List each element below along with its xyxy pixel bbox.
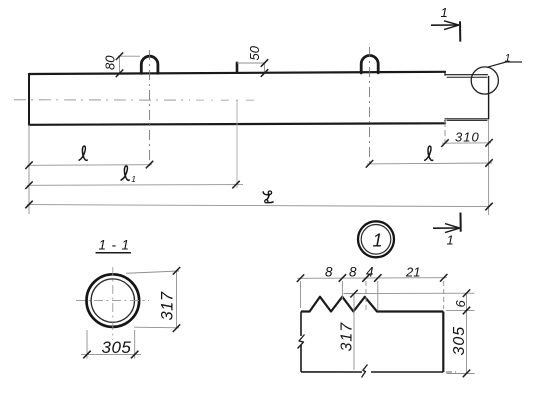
svg-text:50: 50 xyxy=(247,45,262,60)
svg-text:8: 8 xyxy=(325,265,333,280)
svg-text:317: 317 xyxy=(339,322,356,352)
svg-text:1-1: 1-1 xyxy=(99,238,135,253)
svg-text:1: 1 xyxy=(441,5,448,20)
svg-text:305: 305 xyxy=(451,326,468,356)
svg-text:1: 1 xyxy=(373,231,383,251)
svg-text:4: 4 xyxy=(366,265,374,280)
svg-text:21: 21 xyxy=(405,265,420,280)
svg-text:1: 1 xyxy=(447,233,454,248)
svg-text:305: 305 xyxy=(102,338,132,357)
svg-text:8: 8 xyxy=(349,265,357,280)
svg-text:310: 310 xyxy=(455,130,480,145)
svg-text:6: 6 xyxy=(453,300,468,308)
svg-text:1: 1 xyxy=(131,174,136,184)
svg-text:80: 80 xyxy=(103,55,118,70)
svg-text:317: 317 xyxy=(159,291,177,320)
svg-text:1: 1 xyxy=(505,53,511,65)
